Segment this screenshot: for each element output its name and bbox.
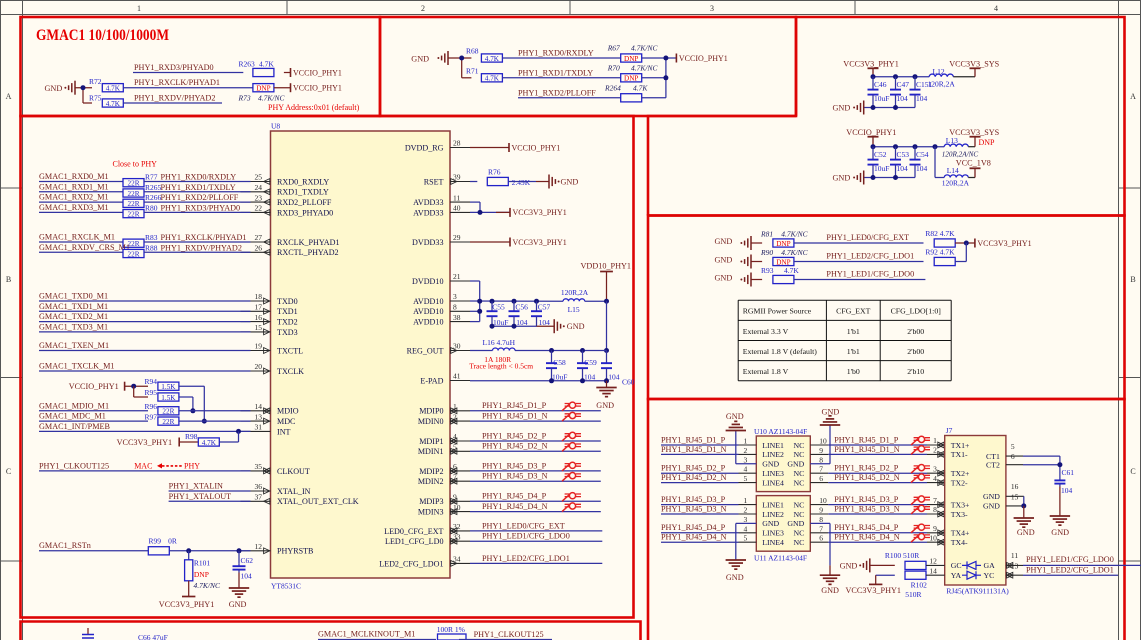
inductor L13 (DNP) <box>942 136 995 159</box>
svg-text:13: 13 <box>255 412 263 421</box>
svg-text:VCC3V3_PHY1: VCC3V3_PHY1 <box>513 238 567 247</box>
svg-text:11: 11 <box>1011 551 1018 560</box>
svg-text:C46: C46 <box>874 80 887 89</box>
svg-text:MDIO: MDIO <box>277 407 299 416</box>
svg-text:TXD3: TXD3 <box>277 328 298 337</box>
svg-text:R81: R81 <box>760 230 773 239</box>
resistor R81 (DNP) <box>760 230 809 248</box>
wire PHY1_RJ45_D3_P (U8 side) <box>470 470 601 472</box>
svg-text:DNP: DNP <box>624 75 638 83</box>
wire R94 to MDC <box>179 386 207 423</box>
resistor R77 (22R) <box>123 179 144 188</box>
diff pair marker PHY1_RJ45_D4_P <box>562 493 581 502</box>
resistor R101 (DNP) <box>185 551 221 590</box>
wire PHY1_RJ45_D3_N (U8 side) <box>470 480 601 482</box>
svg-text:TX2-: TX2- <box>951 478 968 487</box>
wire GMAC1_TXEN_M1 <box>39 350 251 352</box>
svg-text:GMAC1_MDIO_M1: GMAC1_MDIO_M1 <box>39 401 109 410</box>
power port GND (R76) <box>549 175 578 189</box>
svg-text:GND: GND <box>596 401 614 410</box>
power port VCC3V3_PHY1 (region D) <box>975 239 1032 248</box>
net label PHY1_RXD1/TXDLY <box>518 68 593 77</box>
svg-text:PHY1_RJ45_D3_P: PHY1_RJ45_D3_P <box>482 461 547 470</box>
svg-text:20: 20 <box>255 362 263 371</box>
svg-text:22R: 22R <box>128 200 140 208</box>
svg-text:DVDD33: DVDD33 <box>412 238 443 247</box>
net label PHY1_RXCLK/PHYAD1 <box>134 78 220 87</box>
wire U11 pin8 to GND <box>810 523 830 575</box>
net label PHY1_RJ45_D4_P (magnetics in) <box>661 523 726 532</box>
resistor R82 <box>925 229 955 247</box>
wire PHY1_CLKOUT125 <box>39 470 251 472</box>
svg-text:TXCLK: TXCLK <box>277 367 304 376</box>
svg-text:PHY1_RJ45_D2_P: PHY1_RJ45_D2_P <box>834 464 899 473</box>
region box: LED config straps + table (middle-right) <box>648 216 1125 400</box>
svg-text:GND: GND <box>762 519 779 528</box>
power port VCCIO_PHY1 (filter2) <box>846 128 896 147</box>
diff pair marker PHY1_RJ45_D3_N (RJ45) <box>911 505 930 514</box>
svg-text:GND: GND <box>983 502 1000 511</box>
svg-text:120R,2A/NC: 120R,2A/NC <box>942 151 979 159</box>
diff pair marker PHY1_RJ45_D2_P (RJ45) <box>911 465 930 474</box>
wire PHY1_RJ45_D2_N (U8 side) <box>470 450 601 452</box>
wire VCC3V3_PHY1 to R102 <box>876 575 895 584</box>
svg-text:104: 104 <box>916 94 928 103</box>
net label GMAC1_RXD0_M1 <box>39 172 109 181</box>
net label PHY1_LED1/CFG_LDO0 <box>826 270 914 279</box>
power port GND (J7 pins 15/16) <box>1014 518 1035 537</box>
resistor R93 <box>761 266 799 284</box>
net label PHY1_XTALIN <box>169 482 223 491</box>
wire PHY1_RJ45_D1_N (U8 side) <box>470 420 601 422</box>
svg-text:2: 2 <box>744 506 748 515</box>
wire VCC3V3_PHY1 to R98 <box>179 441 198 443</box>
svg-text:YA: YA <box>951 571 962 580</box>
svg-text:A: A <box>1130 92 1136 101</box>
resistor R76 (2.49K) <box>487 168 530 188</box>
wire GMAC1_MDC_M1 <box>39 420 148 422</box>
svg-text:LINE3: LINE3 <box>762 529 784 538</box>
svg-text:R71: R71 <box>466 66 479 75</box>
net label PHY1_CLKOUT125 <box>39 461 109 470</box>
wire PHY1_LED2/CFG_LDO1 <box>794 261 924 263</box>
svg-text:GND: GND <box>715 274 733 283</box>
svg-text:4.7K/NC: 4.7K/NC <box>194 581 221 590</box>
svg-text:NC: NC <box>793 450 804 459</box>
svg-text:GMAC1_TXD1_M1: GMAC1_TXD1_M1 <box>39 302 108 311</box>
wire PHY1_RJ45_D1_P (RJ45 in) <box>810 442 944 448</box>
svg-text:PHYRSTB: PHYRSTB <box>277 547 313 556</box>
svg-text:R98: R98 <box>185 432 198 441</box>
svg-text:PHY1_LED0/CFG_EXT: PHY1_LED0/CFG_EXT <box>482 521 565 530</box>
wire PHY1_RJ45_D4_P (U8 side) <box>470 500 601 502</box>
svg-text:7: 7 <box>819 465 823 474</box>
wire R96 to MDIO pin <box>179 410 251 412</box>
svg-text:YC: YC <box>984 571 995 580</box>
svg-text:GMAC1_MDC_M1: GMAC1_MDC_M1 <box>39 412 106 421</box>
svg-text:PHY1_CLKOUT125: PHY1_CLKOUT125 <box>39 461 109 470</box>
svg-text:2.49K: 2.49K <box>512 178 531 187</box>
svg-text:8: 8 <box>933 505 937 514</box>
resistor R83 (22R) <box>123 239 144 248</box>
region box: power filters (top-right, L-shaped) <box>648 17 1125 216</box>
svg-text:GMAC1_TXD2_M1: GMAC1_TXD2_M1 <box>39 312 108 321</box>
wire R98 to INT <box>219 431 238 442</box>
svg-text:VCCIO_PHY1: VCCIO_PHY1 <box>69 382 119 391</box>
svg-text:R96: R96 <box>145 402 158 411</box>
net label PHY1_RXD3/PHYAD0 <box>134 63 214 72</box>
svg-text:C: C <box>1130 467 1135 476</box>
svg-text:9: 9 <box>819 506 823 515</box>
net label PHY1_LED1/CFG_LDO0 (J7) <box>1026 555 1114 564</box>
capacitor C66 (cut off) <box>82 628 168 640</box>
wire PHY1_RJ45_D4_N (RJ45 in) <box>810 539 944 545</box>
diff pair marker PHY1_RJ45_D3_N <box>562 473 581 482</box>
svg-text:GMAC1_INT/PMEB: GMAC1_INT/PMEB <box>39 422 111 431</box>
wire PHY1_RJ45_D1_N (magnetics in) <box>661 453 756 455</box>
svg-text:6: 6 <box>819 474 823 483</box>
wire PHY1_LED0/CFG_EXT (U8 side) <box>470 530 602 532</box>
svg-text:PHY1_RJ45_D4_N: PHY1_RJ45_D4_N <box>482 502 548 511</box>
svg-text:GND: GND <box>983 492 1000 501</box>
svg-text:16: 16 <box>1011 482 1019 491</box>
wire R73 to VCCIO_PHY1 <box>274 87 291 89</box>
svg-text:C60: C60 <box>622 378 635 387</box>
net label PHY1_RXD2/PLLOFF <box>518 88 596 97</box>
svg-text:PHY1_XTALOUT: PHY1_XTALOUT <box>169 492 232 501</box>
svg-text:PHY1_RJ45_D4_N: PHY1_RJ45_D4_N <box>661 533 727 542</box>
wire PHY1_RXD2/PLLOFF <box>518 97 621 99</box>
net label PHY1_RJ45_D2_N (RJ45 in) <box>834 473 900 482</box>
svg-text:16: 16 <box>255 313 263 322</box>
svg-text:PHY1_LED0/CFG_EXT: PHY1_LED0/CFG_EXT <box>826 233 909 242</box>
diff pair marker PHY1_RJ45_D1_P (RJ45) <box>911 436 930 445</box>
svg-text:9: 9 <box>819 446 823 455</box>
wire pin30 to L16 <box>470 350 493 352</box>
svg-text:GA: GA <box>984 561 996 570</box>
svg-text:VCCIO_PHY1: VCCIO_PHY1 <box>512 143 561 152</box>
power port GND (filter2) <box>833 171 864 185</box>
wire AVDD10 rail <box>470 299 563 322</box>
svg-text:A: A <box>6 92 12 101</box>
svg-text:GC: GC <box>951 561 962 570</box>
svg-text:3: 3 <box>933 464 937 473</box>
svg-text:NC: NC <box>793 529 804 538</box>
net label PHY1_RJ45_D4_N (U8 side) <box>482 502 548 511</box>
svg-text:GMAC1_MCLKINOUT_M1: GMAC1_MCLKINOUT_M1 <box>318 630 415 639</box>
svg-text:R75: R75 <box>89 93 102 102</box>
svg-text:38: 38 <box>453 313 461 322</box>
wire GMAC1_MDIO_M1 <box>39 410 148 412</box>
wire PHY1_RJ45_D4_N (magnetics in) <box>661 541 756 543</box>
svg-text:PHY1_RJ45_D2_N: PHY1_RJ45_D2_N <box>482 442 548 451</box>
svg-text:C66 47uF: C66 47uF <box>138 633 168 640</box>
svg-text:TXD1: TXD1 <box>277 307 298 316</box>
svg-text:3: 3 <box>453 292 457 301</box>
svg-text:NC: NC <box>793 478 804 487</box>
net label PHY1_RJ45_D4_N (RJ45 in) <box>834 533 900 542</box>
svg-text:GMAC1_TXCLK_M1: GMAC1_TXCLK_M1 <box>39 362 115 371</box>
svg-text:VCC3V3_SYS: VCC3V3_SYS <box>949 128 999 137</box>
svg-text:PHY1_RXD3/PHYAD0: PHY1_RXD3/PHYAD0 <box>134 63 214 72</box>
svg-text:R83: R83 <box>145 233 158 242</box>
net label PHY1_RXD2/PLLOFF <box>145 193 239 202</box>
svg-text:B: B <box>1130 275 1135 284</box>
wire L13 to VCC3V3_SYS <box>968 146 975 148</box>
power port VCCIO_PHY1 (pin28) <box>509 143 560 152</box>
svg-text:6: 6 <box>819 534 823 543</box>
power port GND (C62) <box>229 588 250 609</box>
region box: PHY address straps (top-left) <box>21 17 381 116</box>
svg-text:C: C <box>6 467 11 476</box>
svg-text:4.7K: 4.7K <box>106 100 121 108</box>
power port GND (C61) <box>1050 516 1070 537</box>
svg-text:NC: NC <box>793 441 804 450</box>
wire GMAC1_RXD0_M1 <box>39 181 123 183</box>
net label PHY1_LED2/CFG_LDO1 <box>826 252 914 261</box>
svg-text:GMAC1_TXD0_M1: GMAC1_TXD0_M1 <box>39 292 108 301</box>
svg-text:17: 17 <box>255 303 263 312</box>
wire PHY1_XTALIN <box>169 490 251 492</box>
net label PHY1_RXD0/RXDLY <box>518 49 594 58</box>
wire GMAC1_INT/PMEB <box>39 429 251 434</box>
svg-text:PHY1_RJ45_D3_N: PHY1_RJ45_D3_N <box>661 504 727 513</box>
wire VDD10 node down <box>604 301 609 353</box>
wire filter2 gnd rail <box>864 175 915 180</box>
svg-text:AVDD33: AVDD33 <box>413 208 443 217</box>
svg-text:GND: GND <box>726 412 744 421</box>
svg-text:PHY1_RXCLK/PHYAD1: PHY1_RXCLK/PHYAD1 <box>161 233 247 242</box>
svg-text:R101: R101 <box>194 558 211 567</box>
svg-text:GND: GND <box>1051 528 1069 537</box>
wire GND to R81 <box>751 242 762 244</box>
svg-text:3: 3 <box>710 4 714 13</box>
resistor R265 (22R) <box>123 189 144 198</box>
net label GMAC1_MCLKINOUT_M1 <box>318 630 415 639</box>
svg-text:External 1.8 V (default): External 1.8 V (default) <box>743 347 818 356</box>
connector J7 RJ45 body <box>945 426 1010 596</box>
svg-text:12: 12 <box>255 542 263 551</box>
svg-text:R92 4.7K: R92 4.7K <box>925 248 955 257</box>
annotation L16 rating <box>469 355 533 370</box>
svg-text:PHY1_LED1/CFG_LDO0: PHY1_LED1/CFG_LDO0 <box>1026 555 1114 564</box>
svg-text:120R,2A: 120R,2A <box>942 179 970 188</box>
net label PHY1_RJ45_D3_N (U8 side) <box>482 472 548 481</box>
svg-text:MAC: MAC <box>134 462 152 471</box>
wire PHY1_RJ45_D4_P (magnetics in) <box>661 532 756 534</box>
svg-text:1'b1: 1'b1 <box>847 327 860 336</box>
svg-text:7: 7 <box>933 496 937 505</box>
wire GND to R68/R71 <box>448 56 471 78</box>
wire PHY1_XTALOUT <box>169 500 251 502</box>
svg-text:10uF: 10uF <box>874 94 889 103</box>
svg-text:PHY1_RXD2/PLLOFF: PHY1_RXD2/PLLOFF <box>161 193 239 202</box>
svg-text:26: 26 <box>255 244 263 253</box>
power port GND (LED strap R81) <box>715 236 752 250</box>
wire pin28 to VCCIO_PHY1 <box>470 147 509 149</box>
svg-text:8: 8 <box>819 455 823 464</box>
svg-text:MDC: MDC <box>277 417 295 426</box>
transformer U10 (AZ1143-04F) <box>744 427 828 492</box>
net label PHY1_RJ45_D2_N (magnetics in) <box>661 473 727 482</box>
capacitor C55 <box>487 301 509 327</box>
svg-text:C56: C56 <box>515 302 528 311</box>
power port GND (C60) <box>596 381 616 410</box>
power port VCC3V3_SYS (filter2) <box>949 128 999 147</box>
svg-text:XTAL_IN: XTAL_IN <box>277 487 311 496</box>
svg-text:2'b00: 2'b00 <box>907 327 924 336</box>
svg-text:R68: R68 <box>466 47 479 56</box>
capacitor C59 <box>577 351 597 382</box>
net label PHY1_CLKOUT125 (bottom) <box>474 630 544 639</box>
svg-text:PHY: PHY <box>184 462 200 471</box>
svg-text:10: 10 <box>819 437 827 446</box>
resistor R? (100R 1%) <box>437 625 466 640</box>
wire PHY1_LED1/CFG_LDO0 (J7) <box>1006 563 1141 569</box>
svg-text:GND: GND <box>561 178 579 187</box>
title GMAC1 10/100/1000M <box>36 27 169 44</box>
svg-text:10uF: 10uF <box>552 372 567 381</box>
svg-text:104: 104 <box>1061 486 1073 495</box>
svg-text:8: 8 <box>453 303 457 312</box>
svg-text:RXCTL_PHYAD2: RXCTL_PHYAD2 <box>277 248 339 257</box>
wire U10 pin3 to GND <box>736 431 757 464</box>
svg-text:4: 4 <box>994 4 998 13</box>
annotation MAC from PHY <box>134 462 200 471</box>
svg-text:R90: R90 <box>760 248 773 257</box>
svg-text:L15: L15 <box>568 305 580 314</box>
wire GMAC1_TXD3_M1 <box>39 331 251 333</box>
wire GND to R72/R75 <box>75 85 92 103</box>
svg-text:NC: NC <box>793 510 804 519</box>
wire PHY1_RJ45_D3_P (magnetics in) <box>661 504 756 506</box>
svg-text:E-PAD: E-PAD <box>420 376 443 385</box>
resistor R92 <box>925 248 955 266</box>
resistor R263 <box>239 60 275 77</box>
svg-text:LINE2: LINE2 <box>762 510 784 519</box>
svg-text:VCCIO_PHY1: VCCIO_PHY1 <box>679 54 728 63</box>
svg-text:RXCLK_PHYAD1: RXCLK_PHYAD1 <box>277 238 340 247</box>
net label GMAC1_TXD3_M1 <box>39 322 108 331</box>
svg-text:PHY1_RJ45_D3_N: PHY1_RJ45_D3_N <box>482 472 548 481</box>
power port VCC_1V8 <box>956 159 991 178</box>
net label PHY1_RJ45_D1_N (magnetics in) <box>661 445 727 454</box>
power port VDD10_PHY1 <box>581 261 632 301</box>
diff pair marker PHY1_RJ45_D1_N <box>562 412 581 421</box>
wire GMAC1_RXCLK_M1 <box>39 241 123 243</box>
svg-text:GND: GND <box>229 600 247 609</box>
svg-text:4.7K/NC: 4.7K/NC <box>781 230 808 239</box>
svg-text:MDIN2: MDIN2 <box>418 477 444 486</box>
svg-text:VCC3V3_PHY1: VCC3V3_PHY1 <box>846 586 902 595</box>
inductor L14 <box>942 166 970 188</box>
svg-text:MDIP1: MDIP1 <box>419 437 443 446</box>
transformer U11 (AZ1143-04F) <box>744 496 828 563</box>
wire L15 to VDD10 node <box>585 299 609 304</box>
wire GMAC1_RXD3_M1 <box>39 211 123 213</box>
net label PHY1_RJ45_D1_P (U8 side) <box>482 401 547 410</box>
power port VCC3V3_PHY1 (pins11/40) <box>510 208 567 217</box>
svg-text:PHY1_LED2/CFG_LDO1: PHY1_LED2/CFG_LDO1 <box>1026 565 1114 574</box>
net label GMAC1_RSTn <box>39 541 91 550</box>
svg-text:PHY1_RJ45_D4_P: PHY1_RJ45_D4_P <box>834 523 899 532</box>
net label PHY1_RJ45_D3_P (U8 side) <box>482 461 547 470</box>
wire R76 to GND <box>508 181 549 183</box>
wire PHY1_RJ45_D4_P (RJ45 in) <box>810 530 944 536</box>
capacitor C54 <box>910 147 929 178</box>
svg-text:LED1_CFG_LD0: LED1_CFG_LD0 <box>385 537 443 546</box>
wire GMAC1_RXDV_CRS_M1 <box>39 251 123 253</box>
svg-text:CLKOUT: CLKOUT <box>277 467 310 476</box>
svg-text:PHY1_RXDV/PHYAD2: PHY1_RXDV/PHYAD2 <box>134 94 215 103</box>
svg-text:GMAC1_RXCLK_M1: GMAC1_RXCLK_M1 <box>39 233 115 242</box>
net label PHY1_LED1/CFG_LDO0 (U8 side) <box>482 532 570 541</box>
net label PHY1_RXDV/PHYAD2 <box>134 94 215 103</box>
svg-text:LINE3: LINE3 <box>762 469 784 478</box>
svg-text:6: 6 <box>1011 452 1015 461</box>
U8 pins <box>241 139 471 569</box>
svg-text:GND: GND <box>833 104 851 113</box>
svg-text:TX4-: TX4- <box>951 538 968 547</box>
wire PHY1_RJ45_D2_P (U8 side) <box>470 440 601 442</box>
wire PHY1_RJ45_D1_P (U8 side) <box>470 410 601 412</box>
svg-text:PHY1_RJ45_D3_N: PHY1_RJ45_D3_N <box>834 504 900 513</box>
svg-text:2'b00: 2'b00 <box>907 347 924 356</box>
svg-text:R95: R95 <box>145 388 158 397</box>
svg-text:4.7K: 4.7K <box>202 439 217 447</box>
net label PHY1_RJ45_D3_N (RJ45 in) <box>834 504 900 513</box>
resistor R266 (22R) <box>123 199 144 208</box>
svg-text:22: 22 <box>255 204 263 213</box>
svg-text:40: 40 <box>453 204 461 213</box>
diff pair marker PHY1_RJ45_D1_N (RJ45) <box>911 446 930 455</box>
diff pair marker PHY1_RJ45_D3_P <box>562 462 581 471</box>
wire PHY1_RXDV/PHYAD2 <box>123 102 222 104</box>
svg-text:28: 28 <box>453 139 461 148</box>
svg-text:10: 10 <box>929 533 937 542</box>
wire GMAC1_MCLKINOUT_M1 <box>318 639 436 640</box>
svg-text:36: 36 <box>255 482 263 491</box>
svg-text:R100 510R: R100 510R <box>885 551 919 560</box>
svg-text:RXD3_PHYAD0: RXD3_PHYAD0 <box>277 208 333 217</box>
resistor R67 (DNP) <box>607 44 659 63</box>
table RGMII power source (grid) <box>738 300 951 381</box>
wire GND to R93 <box>751 279 762 281</box>
svg-text:GND: GND <box>1017 528 1035 537</box>
capacitor C47 <box>890 77 909 108</box>
wire R102 to J7 pin14 <box>926 574 945 576</box>
svg-text:C53: C53 <box>897 150 910 159</box>
diff pair marker PHY1_RJ45_D2_N (RJ45) <box>911 474 930 483</box>
svg-text:22R: 22R <box>128 190 140 198</box>
svg-text:VCCIO_PHY1: VCCIO_PHY1 <box>846 128 896 137</box>
net label PHY1_LED0/CFG_EXT <box>826 233 909 242</box>
wire GMAC1_TXCLK_M1 <box>39 370 251 372</box>
inductor L12 <box>928 67 956 89</box>
svg-text:TX2+: TX2+ <box>951 469 970 478</box>
svg-text:External 1.8 V: External 1.8 V <box>743 367 789 376</box>
wire C55 gnd rail <box>490 324 555 329</box>
wire PHY1_RXD3/PHYAD0 <box>133 72 243 74</box>
wire PHY1_LED0/CFG_EXT <box>794 242 924 244</box>
svg-text:PHY1_RJ45_D2_P: PHY1_RJ45_D2_P <box>661 464 726 473</box>
svg-text:VCC3V3_SYS: VCC3V3_SYS <box>949 60 999 69</box>
svg-text:PHY1_RXD0/RXDLY: PHY1_RXD0/RXDLY <box>518 49 594 58</box>
svg-text:PHY1_LED2/CFG_LDO1: PHY1_LED2/CFG_LDO1 <box>482 554 570 563</box>
svg-text:0R: 0R <box>168 537 177 546</box>
svg-text:104: 104 <box>584 372 596 381</box>
resistor R80 (22R) <box>123 210 144 219</box>
